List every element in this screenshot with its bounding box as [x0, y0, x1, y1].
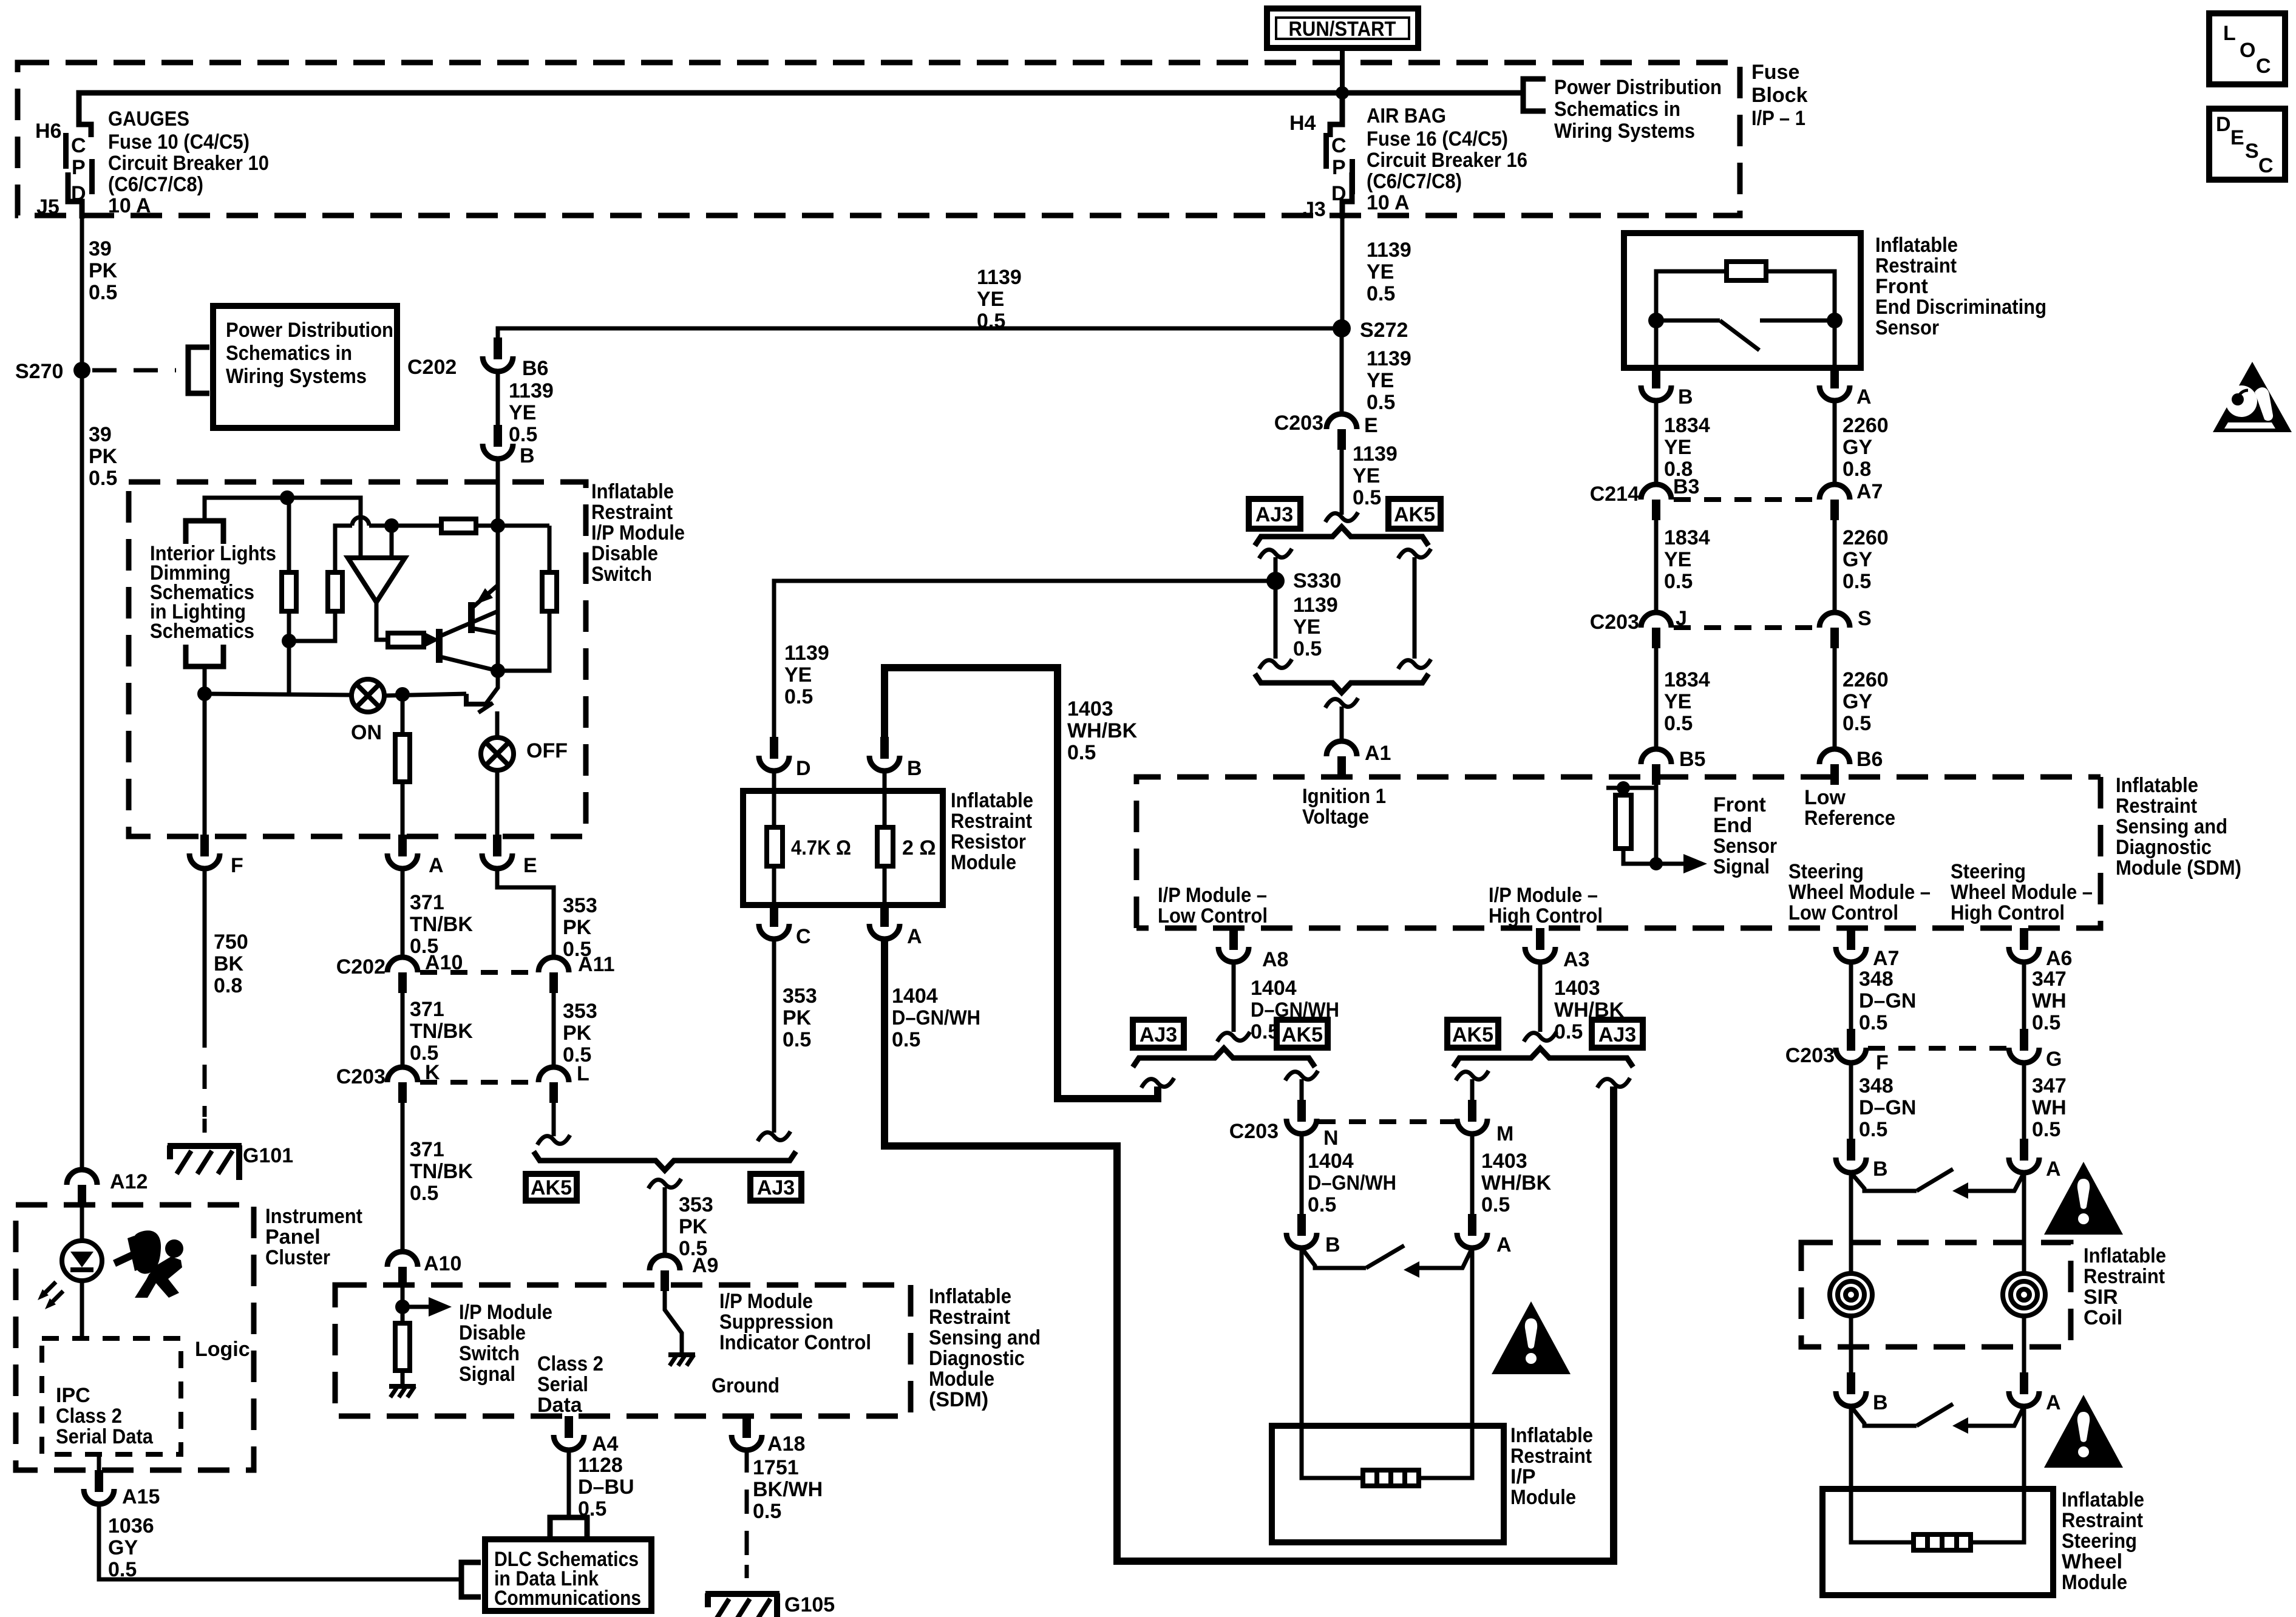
- svg-text:750: 750: [214, 931, 248, 954]
- wire 1403 route B pin to AJ3 break: [885, 668, 1158, 1099]
- label Inflatable Restraint Sensing and Diagnostic Module (SDM): [2116, 774, 2241, 880]
- wire S330 to resistor module feed: [774, 581, 1275, 739]
- svg-text:BK/WH: BK/WH: [753, 1478, 823, 1501]
- svg-text:1403: 1403: [1554, 977, 1600, 1000]
- svg-text:AK5: AK5: [1282, 1023, 1323, 1046]
- lamp OFF: [481, 737, 568, 770]
- node dot top rail: [280, 490, 294, 505]
- wire B vertical collector bus: [496, 526, 500, 671]
- svg-text:39: 39: [89, 237, 112, 260]
- svg-text:WH: WH: [2032, 989, 2067, 1012]
- Logic inner dashed box: [42, 1338, 181, 1454]
- label 347 WH 0.5: [2032, 968, 2067, 1034]
- wire A7 to C203-S: [1833, 519, 1837, 614]
- bracket lower (interior lights ref): [186, 645, 223, 666]
- svg-text:C203: C203: [1590, 611, 1639, 634]
- svg-text:2260: 2260: [1843, 414, 1889, 437]
- svg-text:Inflatable: Inflatable: [2084, 1244, 2166, 1267]
- wire C to AJ3 break: [772, 939, 776, 1133]
- merge brace to A9: [534, 1151, 796, 1170]
- break AJ3 branch top: [1259, 549, 1292, 558]
- connector C202 A11: [538, 953, 615, 993]
- node dot at B wire: [491, 518, 505, 533]
- wire S272 to C203-E: [1340, 328, 1344, 415]
- wire bottom rail right of lamp: [384, 694, 466, 696]
- svg-text:1139: 1139: [1353, 442, 1398, 466]
- svg-text:1139: 1139: [784, 642, 829, 665]
- svg-text:AIR BAG: AIR BAG: [1367, 104, 1446, 127]
- svg-text:A: A: [1496, 1233, 1512, 1256]
- label 353 PK 0.5: [679, 1193, 713, 1260]
- svg-text:GY: GY: [1843, 690, 1872, 713]
- Inflatable Restraint I/P Module Disable Switch dashed box: [129, 482, 586, 836]
- svg-text:L: L: [577, 1062, 589, 1085]
- svg-text:GY: GY: [108, 1536, 138, 1559]
- svg-text:YE: YE: [1353, 464, 1380, 487]
- connector A (steering wheel module): [2009, 1372, 2061, 1414]
- svg-text:0.5: 0.5: [1293, 637, 1322, 660]
- label 1404 D-GN/WH 0.5: [1308, 1150, 1396, 1216]
- svg-text:P: P: [1332, 156, 1346, 179]
- svg-text:Signal: Signal: [1713, 855, 1770, 878]
- svg-text:Restraint: Restraint: [951, 810, 1032, 833]
- svg-text:Indicator Control: Indicator Control: [719, 1331, 871, 1354]
- arrow Front End Sensor Signal: [1656, 854, 1707, 873]
- svg-text:G101: G101: [243, 1144, 293, 1167]
- svg-text:Disable: Disable: [591, 542, 658, 565]
- connector C202 A10: [336, 951, 463, 993]
- svg-text:J5: J5: [36, 195, 59, 219]
- svg-text:AJ3: AJ3: [1598, 1023, 1636, 1046]
- label I/P Module Suppression Indicator Control: [719, 1290, 871, 1354]
- svg-text:A: A: [1856, 385, 1872, 408]
- svg-text:C203: C203: [336, 1065, 385, 1088]
- splice pack brace upper: [1255, 527, 1428, 546]
- svg-text:Schematics in: Schematics in: [226, 342, 352, 365]
- svg-text:0.5: 0.5: [89, 281, 117, 304]
- svg-text:A: A: [2046, 1158, 2061, 1181]
- connector A3 (SDM): [1525, 928, 1589, 971]
- wire B5 internal: [1654, 779, 1659, 864]
- svg-text:H6: H6: [35, 120, 61, 143]
- svg-text:C203: C203: [1785, 1044, 1835, 1067]
- break below A8: [1217, 1032, 1250, 1042]
- wire bracket to bottom rail: [203, 666, 207, 694]
- resistor R3 (top horizontal): [441, 519, 476, 533]
- svg-text:0.5: 0.5: [1859, 1118, 1887, 1141]
- wire F branch: [203, 694, 207, 836]
- wire B to C214: [1654, 401, 1659, 486]
- wire LED to logic box: [80, 1280, 84, 1339]
- wire J5 to S270: [80, 202, 84, 370]
- svg-text:Inflatable: Inflatable: [1510, 1424, 1593, 1447]
- svg-text:L: L: [2223, 22, 2236, 45]
- svg-text:YE: YE: [1664, 436, 1691, 459]
- svg-text:H4: H4: [1289, 112, 1316, 135]
- label 1139 YE 0.5: [784, 642, 829, 708]
- svg-text:AJ3: AJ3: [757, 1176, 795, 1199]
- svg-text:J3: J3: [1303, 198, 1326, 221]
- svg-text:A15: A15: [122, 1485, 160, 1508]
- label 1403 WH/BK 0.5: [1554, 977, 1625, 1043]
- label I/P Module - High Control: [1489, 884, 1603, 927]
- transistor Q1 base bar: [468, 602, 475, 633]
- svg-text:A10: A10: [424, 1252, 461, 1275]
- label 371 TN/BK 0.5: [410, 998, 473, 1065]
- node dot bottom rail left: [197, 686, 212, 701]
- svg-text:Low Control: Low Control: [1788, 901, 1898, 924]
- wire rail B segment to R3: [392, 524, 441, 528]
- wire coil right out: [2022, 1316, 2026, 1374]
- label H4: [1289, 112, 1316, 135]
- svg-text:Instrument: Instrument: [265, 1205, 362, 1228]
- svg-text:Inflatable: Inflatable: [2116, 774, 2198, 797]
- svg-text:353: 353: [679, 1193, 713, 1216]
- svg-text:I/P Module –: I/P Module –: [1158, 884, 1267, 907]
- page ref box AK5: [1277, 1020, 1328, 1048]
- svg-text:Inflatable: Inflatable: [951, 789, 1033, 812]
- svg-text:Sensor: Sensor: [1713, 835, 1777, 858]
- svg-text:1128: 1128: [578, 1454, 623, 1477]
- label Inflatable Restraint I/P Module Disable Switch: [591, 480, 685, 586]
- Inflatable Restraint SIR Coil dashed box: [1801, 1242, 2071, 1347]
- label 1128 D-BU 0.5: [578, 1454, 634, 1520]
- svg-text:B6: B6: [522, 357, 548, 380]
- svg-text:Circuit Breaker 10: Circuit Breaker 10: [108, 152, 269, 175]
- svg-text:0.5: 0.5: [1353, 486, 1381, 509]
- svg-text:AK5: AK5: [531, 1176, 572, 1199]
- svg-text:A9: A9: [692, 1254, 718, 1277]
- svg-text:C202: C202: [336, 955, 385, 978]
- label I/P Module - Low Control: [1158, 884, 1268, 927]
- svg-text:1403: 1403: [1481, 1150, 1527, 1173]
- label 1834 YE 0.5: [1664, 526, 1710, 593]
- wire A3 to break: [1538, 962, 1543, 1032]
- break AJ3 (C wire): [758, 1131, 790, 1141]
- svg-text:353: 353: [563, 1000, 597, 1023]
- connector B (disable switch): [483, 425, 535, 467]
- label Inflatable Restraint SIR Coil: [2084, 1244, 2166, 1329]
- svg-text:Logic: Logic: [195, 1338, 250, 1361]
- label 39 PK 0.5: [89, 237, 118, 304]
- op-amp comparator U1: [348, 558, 405, 602]
- svg-text:Coil: Coil: [2084, 1306, 2122, 1329]
- svg-text:0.5: 0.5: [1367, 282, 1395, 305]
- node dot R1/R2 junction: [282, 634, 296, 648]
- airbag warning icon: [113, 1230, 183, 1298]
- svg-text:P: P: [72, 156, 86, 179]
- svg-text:B: B: [1873, 1391, 1888, 1414]
- svg-text:Module: Module: [951, 851, 1016, 874]
- connector B6 (SDM): [1819, 748, 1883, 785]
- wire AK5 branch to C203-N: [1300, 1079, 1304, 1120]
- resistor R2 (mid): [289, 526, 352, 641]
- svg-text:Steering: Steering: [1788, 860, 1864, 883]
- svg-text:B: B: [907, 757, 922, 780]
- svg-text:0.5: 0.5: [1367, 391, 1395, 414]
- svg-text:Module: Module: [2062, 1571, 2127, 1594]
- svg-text:End: End: [1713, 814, 1752, 837]
- label 1139 YE 0.5: [1353, 442, 1398, 509]
- svg-text:0.5: 0.5: [2032, 1011, 2060, 1034]
- wire A10 to C203-K: [401, 992, 405, 1068]
- wire B into module: [883, 771, 887, 792]
- wire M to A: [1470, 1133, 1475, 1216]
- svg-text:A3: A3: [1563, 948, 1589, 971]
- wire R3 to B node: [476, 524, 549, 528]
- svg-text:PK: PK: [563, 916, 592, 939]
- svg-text:Serial Data: Serial Data: [56, 1425, 154, 1448]
- connector A (SIR coil upper): [2009, 1139, 2061, 1181]
- wire 1404 route A pin around to AJ3 break: [885, 939, 1614, 1561]
- sensor internal pin wires: [1656, 320, 1835, 369]
- svg-text:1036: 1036: [108, 1514, 154, 1537]
- svg-text:WH/BK: WH/BK: [1067, 719, 1138, 742]
- svg-text:D: D: [2216, 113, 2231, 136]
- svg-text:N: N: [1323, 1127, 1339, 1150]
- svg-text:Wheel Module –: Wheel Module –: [1951, 881, 2093, 904]
- svg-text:1834: 1834: [1664, 668, 1710, 691]
- svg-text:1139: 1139: [1367, 239, 1411, 262]
- svg-text:0.5: 0.5: [1664, 570, 1693, 593]
- svg-text:C: C: [71, 134, 86, 157]
- svg-text:Low Control: Low Control: [1158, 904, 1268, 927]
- svg-text:OFF: OFF: [526, 739, 568, 762]
- svg-text:B6: B6: [1856, 748, 1883, 771]
- label 39 PK 0.5: [89, 423, 118, 490]
- connector A18: [732, 1416, 805, 1456]
- page ref box AJ3: [1592, 1020, 1643, 1048]
- connector A (disable switch): [387, 835, 444, 877]
- svg-text:Class 2: Class 2: [56, 1405, 122, 1428]
- svg-text:B: B: [1873, 1158, 1888, 1181]
- svg-text:A11: A11: [578, 953, 615, 976]
- resistor front end sensor pullup: [1606, 781, 1656, 864]
- bracket to power distribution box: [188, 347, 209, 393]
- svg-text:A: A: [429, 854, 444, 877]
- svg-text:Inflatable: Inflatable: [591, 480, 674, 503]
- label Inflatable Restraint Steering Wheel Module: [2062, 1488, 2144, 1594]
- lamp ON: [351, 679, 384, 744]
- svg-text:Resistor: Resistor: [951, 830, 1026, 853]
- svg-text:C: C: [2258, 154, 2274, 177]
- svg-text:353: 353: [783, 985, 817, 1008]
- connector row C203 J S: [1590, 607, 1872, 648]
- svg-text:I/P Module: I/P Module: [719, 1290, 813, 1313]
- svg-text:Steering: Steering: [2062, 1530, 2137, 1553]
- shorting bar switch (upper steering): [1851, 1169, 2024, 1199]
- svg-text:Schematics: Schematics: [150, 620, 254, 643]
- svg-text:Power Distribution: Power Distribution: [1554, 76, 1722, 99]
- label Power Distribution Schematics in Wiring Systems (top right): [1554, 76, 1722, 143]
- wire A15 to DLC bracket: [99, 1502, 461, 1579]
- svg-text:1751: 1751: [753, 1456, 799, 1479]
- svg-text:Module: Module: [929, 1368, 994, 1391]
- connector A1 (SDM): [1326, 741, 1391, 777]
- svg-text:M: M: [1496, 1122, 1513, 1145]
- wire B6 to B: [496, 371, 500, 426]
- svg-text:YE: YE: [1293, 615, 1320, 639]
- svg-text:F: F: [231, 854, 243, 877]
- label 750 BK 0.8: [214, 931, 248, 997]
- wire J to B5: [1654, 647, 1659, 750]
- wire top rail: [205, 498, 361, 558]
- svg-text:10 A: 10 A: [1367, 191, 1410, 214]
- svg-text:SIR: SIR: [2084, 1286, 2118, 1309]
- label 1036 GY 0.5: [108, 1514, 154, 1581]
- svg-text:Block: Block: [1751, 84, 1808, 107]
- label 1404 D-GN/WH 0.5: [892, 985, 980, 1051]
- svg-text:Module (SDM): Module (SDM): [2116, 856, 2241, 880]
- svg-text:0.8: 0.8: [214, 974, 242, 997]
- svg-text:C214: C214: [1590, 483, 1639, 506]
- svg-text:YE: YE: [977, 288, 1004, 311]
- svg-text:E: E: [1364, 414, 1378, 437]
- svg-text:I/P Module: I/P Module: [591, 521, 685, 544]
- wire S270 to A12: [80, 370, 84, 1170]
- wire A to steering wheel module: [1971, 1406, 2024, 1542]
- svg-text:IPC: IPC: [56, 1384, 90, 1407]
- svg-text:B: B: [520, 444, 535, 467]
- svg-text:371: 371: [410, 1138, 444, 1161]
- sensor internal resistor loop: [1656, 262, 1835, 320]
- svg-text:A: A: [2046, 1391, 2061, 1414]
- wire L to AK5 break: [552, 1102, 556, 1136]
- wire comparator output to base resistor: [376, 602, 388, 640]
- connector A6 (SDM steering high): [2009, 928, 2072, 970]
- svg-text:39: 39: [89, 423, 112, 446]
- wire A18 to G105 (dashed): [745, 1448, 749, 1578]
- svg-text:C: C: [796, 925, 811, 948]
- resistor 2 ohm: [877, 791, 936, 905]
- svg-text:0.5: 0.5: [783, 1028, 811, 1051]
- svg-text:1139: 1139: [1293, 594, 1338, 617]
- SDM left dashed box: [335, 1285, 911, 1416]
- wire OFF lamp to E: [495, 770, 500, 836]
- label J5: [36, 195, 59, 219]
- svg-text:Data: Data: [537, 1394, 583, 1417]
- svg-text:I/P: I/P: [1510, 1465, 1536, 1488]
- coil left (SIR): [1830, 1273, 1872, 1316]
- wire S272 branch to C202-B6: [498, 328, 1341, 339]
- svg-text:GY: GY: [1843, 548, 1872, 571]
- wire B into SIR coil box: [1849, 1173, 1853, 1273]
- bracket upper (interior lights ref): [186, 521, 223, 544]
- svg-text:Schematics in: Schematics in: [1554, 98, 1680, 121]
- label 2260 GY 0.8: [1843, 414, 1889, 481]
- resistor R7 (disable switch pulldown): [395, 1307, 410, 1385]
- svg-text:PK: PK: [679, 1215, 708, 1238]
- svg-text:Ground: Ground: [712, 1374, 779, 1397]
- transistor Q1 collector with arrow: [472, 585, 498, 608]
- svg-text:D–GN: D–GN: [1859, 989, 1916, 1012]
- svg-text:YE: YE: [509, 401, 536, 424]
- wire to A1: [1340, 707, 1344, 742]
- wire AJ3 branch: [1274, 557, 1278, 659]
- connector E (disable switch): [482, 835, 537, 877]
- svg-text:AJ3: AJ3: [1140, 1023, 1177, 1046]
- svg-text:B3: B3: [1673, 475, 1699, 498]
- svg-text:Front: Front: [1875, 275, 1928, 298]
- svg-text:0.5: 0.5: [1308, 1193, 1336, 1216]
- svg-text:Low: Low: [1804, 786, 1846, 809]
- page ref box AK5: [526, 1174, 577, 1201]
- svg-text:Restraint: Restraint: [1875, 254, 1957, 277]
- svg-text:0.5: 0.5: [1481, 1193, 1510, 1216]
- label 353 PK 0.5: [563, 894, 597, 961]
- svg-text:1139: 1139: [977, 266, 1022, 289]
- svg-text:0.5: 0.5: [1843, 712, 1871, 735]
- svg-text:AK5: AK5: [1394, 503, 1435, 526]
- svg-text:Suppression: Suppression: [719, 1310, 834, 1334]
- svg-text:4.7K Ω: 4.7K Ω: [791, 836, 851, 859]
- break AK5 branch top: [1398, 549, 1431, 558]
- svg-text:C203: C203: [1229, 1120, 1279, 1143]
- wire F to G101: [203, 868, 207, 1133]
- svg-text:348: 348: [1859, 968, 1894, 991]
- svg-text:S330: S330: [1293, 569, 1341, 592]
- svg-text:0.5: 0.5: [2032, 1118, 2060, 1141]
- break below A3: [1524, 1032, 1557, 1042]
- svg-text:Switch: Switch: [591, 563, 652, 586]
- svg-text:Front: Front: [1713, 793, 1766, 816]
- wire E to break: [1340, 449, 1344, 515]
- wire A7 to C203-F: [1849, 962, 1853, 1030]
- label 348 D-GN 0.5: [1859, 968, 1916, 1034]
- svg-text:0.5: 0.5: [977, 310, 1005, 333]
- sensor internal switch: [1656, 320, 1835, 350]
- connector B (front end sensor): [1641, 367, 1693, 408]
- fuse block bus bar: [79, 93, 1523, 126]
- svg-text:Fuse 16 (C4/C5): Fuse 16 (C4/C5): [1367, 127, 1508, 151]
- svg-text:0.5: 0.5: [892, 1028, 920, 1051]
- label S330 1139 YE 0.5: [1293, 569, 1341, 660]
- page ref box AK5: [1447, 1020, 1498, 1048]
- dashed link C202: [420, 970, 536, 975]
- label Inflatable Restraint I/P Module: [1510, 1424, 1593, 1509]
- box DLC Schematics in Data Link Communications: [485, 1539, 651, 1611]
- label 1834 YE 0.8: [1664, 414, 1710, 481]
- break AJ3 (1403 route end): [1141, 1078, 1174, 1088]
- svg-text:Switch: Switch: [459, 1342, 520, 1365]
- connector A7 (SDM steering low): [1836, 928, 1899, 970]
- label Ground: [712, 1374, 779, 1397]
- svg-text:I/P Module: I/P Module: [459, 1301, 552, 1324]
- svg-text:A18: A18: [767, 1432, 805, 1456]
- svg-text:1403: 1403: [1067, 697, 1113, 720]
- RUN/START box: [1267, 8, 1418, 48]
- transistor Q1 emitter: [472, 628, 498, 633]
- svg-text:0.8: 0.8: [1843, 458, 1871, 481]
- svg-text:Communications: Communications: [494, 1587, 641, 1610]
- svg-text:Diagnostic: Diagnostic: [2116, 836, 2212, 859]
- svg-text:Fuse: Fuse: [1751, 61, 1799, 84]
- label Inflatable Restraint Front End Discriminating Sensor: [1875, 234, 2046, 339]
- svg-text:B5: B5: [1679, 748, 1705, 771]
- svg-text:Fuse 10 (C4/C5): Fuse 10 (C4/C5): [108, 131, 250, 154]
- bracket to DLC box: [461, 1562, 481, 1597]
- svg-text:PK: PK: [783, 1006, 812, 1029]
- svg-text:A4: A4: [592, 1432, 619, 1456]
- svg-text:347: 347: [2032, 1074, 2067, 1097]
- splice pack brace lower: [1255, 674, 1428, 693]
- wire G to A: [2022, 1063, 2026, 1140]
- svg-text:Signal: Signal: [459, 1363, 515, 1386]
- svg-text:Cluster: Cluster: [265, 1246, 330, 1269]
- connector A10 (SDM): [387, 1252, 461, 1287]
- svg-text:High Control: High Control: [1951, 901, 2065, 924]
- svg-text:A12: A12: [110, 1170, 148, 1193]
